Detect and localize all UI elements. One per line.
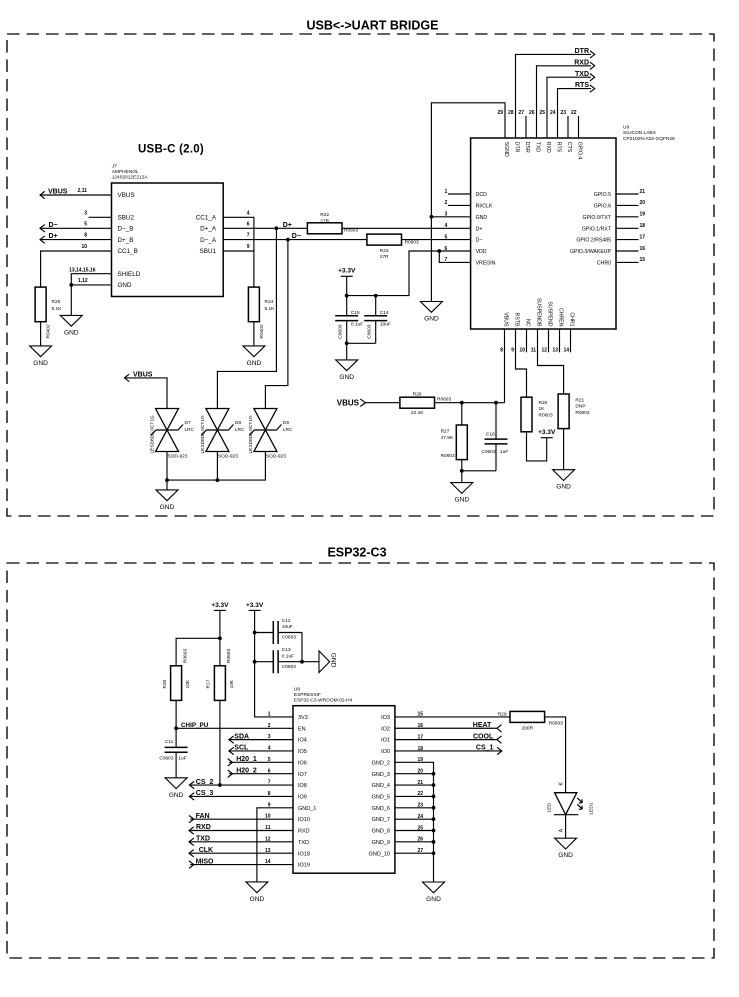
junction rail C14	[374, 294, 378, 298]
svg-text:10K: 10K	[229, 679, 235, 688]
svg-text:25: 25	[539, 110, 545, 116]
wire U9 pin 8 VBUS sense	[504, 329, 506, 403]
wire U9 pin 12 stub	[548, 329, 550, 352]
wire C15/C14 ground rail	[347, 342, 376, 344]
svg-text:DSR: DSR	[524, 142, 530, 153]
wire D8 to D+ junction	[217, 228, 276, 408]
svg-text:10: 10	[519, 348, 525, 354]
svg-text:1K: 1K	[539, 406, 546, 412]
svg-text:GND: GND	[64, 329, 79, 336]
svg-text:NC: NC	[524, 319, 530, 327]
svg-text:10uF: 10uF	[282, 624, 293, 630]
junction D- / D9	[286, 238, 290, 242]
U9 bottom pin numbers	[500, 348, 569, 354]
svg-text:IO9: IO9	[298, 795, 307, 801]
svg-text:27R: 27R	[320, 218, 329, 224]
svg-text:GND: GND	[330, 653, 337, 668]
svg-text:SGND: SGND	[503, 142, 509, 157]
junction J7 shield/gnd	[69, 283, 73, 287]
junction D+ / D8	[275, 226, 279, 230]
svg-text:C11: C11	[165, 739, 174, 745]
svg-text:19: 19	[640, 212, 646, 218]
resistor R23 27R	[367, 234, 419, 260]
svg-text:CC1_A: CC1_A	[196, 215, 217, 222]
svg-text:SBU2: SBU2	[118, 215, 135, 222]
svg-text:13: 13	[552, 348, 558, 354]
svg-text:GPIO.3/WAKEUP: GPIO.3/WAKEUP	[570, 249, 612, 255]
ground (TVS)	[156, 490, 178, 511]
svg-text:GND: GND	[33, 360, 48, 367]
svg-text:LED1: LED1	[588, 802, 594, 814]
svg-text:CTS: CTS	[566, 142, 572, 153]
svg-text:C0603: C0603	[159, 755, 173, 761]
svg-text:VBUS: VBUS	[118, 192, 135, 199]
svg-text:DCD: DCD	[476, 192, 487, 198]
svg-text:VREGIN: VREGIN	[476, 261, 496, 267]
svg-text:+3.3V: +3.3V	[538, 429, 556, 436]
junction SGND / pin3	[430, 215, 434, 219]
svg-text:8: 8	[500, 348, 503, 354]
wire R25 to ground	[40, 322, 42, 346]
svg-text:10uF: 10uF	[380, 321, 391, 327]
svg-text:R23: R23	[380, 248, 389, 254]
wire to ground (caps)	[346, 343, 348, 360]
TVS diode D9	[248, 409, 293, 460]
node SCL	[229, 745, 249, 755]
svg-text:1: 1	[445, 189, 448, 195]
node CS_1	[476, 745, 502, 755]
svg-text:C0603: C0603	[481, 449, 495, 455]
svg-text:27: 27	[518, 110, 524, 116]
svg-text:GND: GND	[169, 792, 184, 799]
svg-text:5.1K: 5.1K	[52, 306, 63, 312]
svg-text:21: 21	[640, 189, 646, 195]
svg-text:IO7: IO7	[298, 772, 307, 778]
svg-text:EN: EN	[298, 726, 306, 732]
svg-text:U8: U8	[294, 687, 300, 693]
resistor R24 5.1K	[248, 287, 275, 338]
wire R30 to CHIP_PU	[175, 700, 177, 728]
wire U9 pin 14 stub	[570, 329, 572, 352]
svg-text:R0603: R0603	[575, 410, 589, 416]
wire R22 to U9 pin 4	[342, 227, 471, 229]
U8 left pin numbers	[265, 712, 271, 866]
svg-text:47.5K: 47.5K	[441, 435, 454, 441]
svg-text:+3.3V: +3.3V	[338, 268, 356, 275]
svg-text:SOD-923: SOD-923	[218, 454, 238, 460]
resistor R17 10K	[206, 649, 235, 701]
svg-text:GPIO.2/RS485: GPIO.2/RS485	[576, 238, 611, 244]
svg-text:GPIO.1/RXT: GPIO.1/RXT	[582, 226, 612, 232]
svg-text:R24: R24	[265, 299, 274, 305]
svg-text:LESD8D5.0CT1G: LESD8D5.0CT1G	[150, 415, 156, 453]
svg-text:GND_7: GND_7	[372, 817, 390, 823]
wire J7 SHIELD pins 13,14,15,16	[69, 267, 111, 285]
junction cap rail	[300, 660, 304, 664]
svg-text:GND_1: GND_1	[298, 806, 316, 812]
wire R24 to ground	[253, 322, 255, 346]
wire H20_2 to U8 pin 6	[229, 773, 293, 775]
node RXD	[574, 59, 594, 69]
power +3.3V (EN pullups)	[211, 602, 229, 611]
svg-text:R20: R20	[539, 400, 548, 406]
U9 top pin numbers	[497, 110, 576, 116]
wire CS_3 to U8 pin 8	[189, 795, 293, 797]
svg-text:GND_10: GND_10	[369, 851, 390, 857]
junction rail C15	[345, 294, 349, 298]
wire +3.3V rail to U9 VDD pin 6	[346, 276, 348, 295]
svg-text:13,14,15,16: 13,14,15,16	[69, 267, 96, 273]
svg-text:14: 14	[563, 348, 569, 354]
svg-text:LESD8D5.0CT1G: LESD8D5.0CT1G	[200, 415, 206, 453]
node MISO	[189, 858, 214, 868]
resistor R25 5.1K	[35, 287, 62, 338]
svg-text:IO18: IO18	[298, 851, 310, 857]
svg-text:IO4: IO4	[298, 738, 307, 744]
wire J7 pin 9 SBU1 stub	[223, 244, 254, 251]
svg-text:+3.3V: +3.3V	[211, 602, 229, 609]
junction TVS rail D8	[216, 478, 220, 482]
wire +3.3V to R30/R17	[219, 610, 221, 665]
svg-text:C0603: C0603	[282, 664, 296, 670]
svg-text:GPIO.6: GPIO.6	[594, 204, 611, 210]
svg-text:DTR: DTR	[575, 48, 589, 55]
wire CS_2 to U8 pin 7	[189, 784, 293, 786]
svg-text:VBUS: VBUS	[48, 188, 68, 195]
U9 right pin numbers	[640, 189, 646, 263]
svg-text:CHR1: CHR1	[568, 312, 574, 326]
resistor R22 27R	[307, 212, 358, 234]
junction C12	[253, 631, 257, 635]
svg-text:D−_A: D−_A	[200, 237, 217, 244]
resistor R21 DNP	[558, 394, 590, 429]
svg-text:IO5: IO5	[298, 749, 307, 755]
node D- (J7 left)	[40, 222, 58, 232]
svg-text:0.1uF: 0.1uF	[282, 653, 294, 659]
svg-text:R0402: R0402	[259, 324, 265, 338]
wire R23 to U9 pin 5	[402, 239, 471, 241]
TVS diode D7 LESD8D5.0CT1G	[150, 409, 195, 460]
svg-text:GND: GND	[558, 852, 573, 859]
wire FAN to U8 pin 10	[190, 818, 293, 820]
node D+ (J7 left)	[40, 233, 58, 243]
wire H20_1 to U8 pin 5	[229, 761, 293, 763]
svg-text:D7: D7	[185, 420, 191, 426]
wire R21 to ground	[563, 429, 565, 470]
svg-text:VBUS: VBUS	[502, 312, 508, 327]
svg-text:RXD: RXD	[298, 829, 310, 835]
svg-text:DTR: DTR	[513, 142, 519, 153]
ground (U8 GND_1)	[246, 882, 268, 903]
svg-text:CP2102N-A02-GQFN28: CP2102N-A02-GQFN28	[623, 136, 675, 142]
svg-text:10K: 10K	[185, 679, 191, 688]
svg-text:GPIO.5: GPIO.5	[594, 192, 611, 198]
junction cap gnd rail	[345, 341, 349, 345]
svg-text:D−_B: D−_B	[118, 226, 134, 233]
svg-text:RTS: RTS	[575, 82, 589, 89]
wire R29 to LED1	[545, 717, 566, 793]
svg-text:28: 28	[508, 110, 514, 116]
junction TVS rail D7	[165, 478, 169, 482]
svg-text:4: 4	[445, 223, 448, 229]
capacitor C11 1uF	[159, 728, 187, 778]
U9 left pin numbers	[445, 189, 448, 263]
svg-text:+3.3V: +3.3V	[246, 602, 264, 609]
svg-text:1,12: 1,12	[78, 278, 88, 284]
svg-text:GND: GND	[424, 316, 439, 323]
svg-text:18: 18	[640, 223, 646, 229]
svg-text:GND: GND	[426, 896, 441, 903]
svg-text:D+: D+	[283, 222, 292, 229]
svg-text:5.1K: 5.1K	[265, 306, 276, 312]
svg-text:R0603: R0603	[549, 721, 563, 727]
wire VBUS to R26	[365, 402, 400, 404]
wire R17 to CS_2	[219, 700, 221, 785]
svg-text:D+_B: D+_B	[118, 237, 134, 244]
wire U9 pin 7 VREGIN	[439, 251, 470, 262]
wire U9 pin 1 DCD stub	[448, 193, 471, 195]
svg-text:D−: D−	[476, 238, 483, 244]
node CLK	[189, 847, 213, 857]
svg-text:LESD8D5.0CT1G: LESD8D5.0CT1G	[248, 415, 254, 453]
svg-text:GPIO.0/TXT: GPIO.0/TXT	[582, 215, 611, 221]
svg-text:R22: R22	[320, 212, 329, 218]
svg-text:27R: 27R	[380, 254, 389, 260]
junction R17/CS_2	[218, 783, 222, 787]
svg-text:R0603: R0603	[437, 397, 451, 403]
svg-text:SHIELD: SHIELD	[118, 271, 141, 278]
svg-text:C16: C16	[486, 432, 495, 438]
svg-text:TXD: TXD	[298, 840, 309, 846]
wire J7 pin 4 CC1_A to R24	[223, 210, 254, 287]
resistor R20 1K	[521, 397, 553, 432]
svg-text:AMPHENOL: AMPHENOL	[112, 169, 139, 175]
wire R26 to U9 pin 8	[435, 402, 505, 404]
wire RTS from U9 pin 24	[558, 89, 592, 138]
svg-text:3: 3	[84, 210, 87, 216]
svg-text:VDD: VDD	[476, 249, 487, 255]
svg-text:3V3: 3V3	[298, 715, 308, 721]
svg-text:22.1K: 22.1K	[411, 410, 424, 416]
svg-text:10: 10	[81, 244, 87, 250]
wire R27/C16 to ground	[461, 460, 463, 483]
svg-text:ESPRESSIF: ESPRESSIF	[294, 692, 321, 698]
svg-text:IO19: IO19	[298, 863, 310, 869]
resistor R29 200R	[498, 711, 564, 731]
svg-text:1uF: 1uF	[500, 449, 508, 455]
svg-text:GND: GND	[476, 215, 488, 221]
svg-text:1: 1	[268, 712, 271, 718]
TVS diode D8	[200, 409, 245, 460]
svg-text:IO6: IO6	[298, 760, 307, 766]
wire U8 GND_1 pin 9 to ground	[257, 808, 293, 882]
svg-text:GND: GND	[118, 282, 132, 289]
svg-text:4: 4	[247, 210, 250, 216]
svg-text:LRC: LRC	[283, 427, 293, 433]
wire HEAT from U8 pin 16	[395, 727, 497, 729]
capacitor C13 0.1uF	[255, 647, 302, 673]
capacitor C14 10uF	[364, 296, 391, 344]
svg-text:GPIO.4: GPIO.4	[576, 142, 582, 159]
svg-text:C0603: C0603	[282, 635, 296, 641]
svg-text:R0603: R0603	[226, 649, 232, 663]
svg-text:0.1uF: 0.1uF	[351, 321, 363, 327]
svg-text:GND: GND	[454, 497, 469, 504]
wire CLK to U8 pin 13	[189, 852, 293, 854]
junction CHIP_PU	[174, 726, 178, 730]
svg-text:GND_3: GND_3	[372, 772, 390, 778]
svg-text:R0603: R0603	[441, 453, 455, 459]
svg-text:C13: C13	[282, 647, 291, 653]
wire SGND pin 29 to ground	[431, 103, 505, 302]
ground (R21)	[553, 470, 575, 491]
ground (C12/C13)	[319, 651, 337, 673]
svg-text:R26: R26	[413, 391, 422, 397]
node VBUS (TVS)	[124, 371, 152, 381]
svg-text:C14: C14	[380, 310, 389, 316]
resistor R27 47.5K	[441, 403, 468, 460]
svg-text:J7: J7	[111, 164, 117, 170]
node FAN	[189, 813, 210, 823]
wire TXD from U9 pin 25	[547, 77, 591, 138]
wire cap gnd rail	[302, 633, 319, 662]
svg-text:5: 5	[445, 234, 448, 240]
svg-text:ESP32-C3: ESP32-C3	[327, 546, 386, 560]
svg-text:GND_9: GND_9	[372, 840, 390, 846]
node VBUS (J7 left)	[40, 188, 68, 198]
junctions ground rail	[432, 772, 436, 855]
node CS_2	[189, 779, 213, 789]
ground (U8 GND rail)	[423, 882, 445, 903]
ground (J7)	[60, 315, 82, 336]
ground (U9 SGND)	[420, 302, 442, 323]
svg-text:K: K	[559, 782, 565, 786]
svg-text:CC1_B: CC1_B	[118, 248, 138, 255]
svg-text:29: 29	[497, 110, 503, 116]
wire COOL from U8 pin 17	[395, 739, 497, 741]
svg-text:R21: R21	[575, 397, 584, 403]
svg-text:CHREN: CHREN	[557, 308, 563, 327]
U9 pin 23 stub	[567, 116, 569, 138]
ground (LED1)	[555, 838, 577, 859]
svg-text:D+: D+	[476, 226, 483, 232]
svg-text:R27: R27	[441, 428, 450, 434]
svg-text:15: 15	[640, 257, 646, 263]
svg-text:D8: D8	[235, 420, 241, 426]
ground (R24)	[243, 346, 265, 367]
svg-text:LRC: LRC	[185, 427, 195, 433]
svg-text:C0603: C0603	[367, 324, 373, 338]
svg-text:D+_A: D+_A	[200, 226, 217, 233]
wire U9 pin 11 SUSPENDB to R21	[538, 329, 564, 394]
svg-text:VBUS: VBUS	[337, 398, 360, 407]
svg-text:USB-C (2.0): USB-C (2.0)	[138, 144, 204, 156]
svg-text:R0603: R0603	[405, 240, 419, 246]
svg-text:20: 20	[640, 200, 646, 206]
ground (R27/C16)	[451, 483, 473, 504]
svg-text:11: 11	[531, 348, 537, 354]
power +3.3V (U8)	[246, 602, 264, 611]
svg-text:RTS: RTS	[555, 142, 561, 153]
wire U9 pin 2 RI stub	[448, 204, 471, 206]
wire CHIP_PU to U8 EN pin 2	[176, 727, 293, 729]
wire U9 pin 10 NC stub	[526, 329, 528, 352]
svg-text:CHR0: CHR0	[597, 261, 611, 267]
svg-text:IO3: IO3	[381, 715, 390, 721]
node TXD (ESP)	[189, 836, 210, 846]
svg-text:R17: R17	[206, 679, 212, 688]
node HEAT	[473, 722, 502, 732]
svg-text:SOD-923: SOD-923	[168, 454, 188, 460]
svg-text:7: 7	[247, 233, 250, 239]
wire J7 GND pins 1,12	[71, 278, 111, 315]
svg-text:24: 24	[550, 110, 556, 116]
svg-text:R0402: R0402	[46, 324, 52, 338]
svg-text:9: 9	[247, 244, 250, 250]
U9 right pin stubs 15-21	[616, 194, 639, 262]
wire D- net J7 pin 7 to R23	[223, 233, 367, 240]
svg-text:17: 17	[640, 234, 646, 240]
svg-text:D9: D9	[283, 420, 289, 426]
capacitor C12 10uF	[255, 618, 302, 644]
svg-text:SOD-923: SOD-923	[266, 454, 286, 460]
svg-text:RI/CLK: RI/CLK	[476, 204, 493, 210]
svg-text:R0603: R0603	[539, 413, 553, 419]
IC U9 SILICON LABS CP2102N-A02-GQFN28	[471, 125, 675, 330]
svg-text:GND_6: GND_6	[372, 806, 390, 812]
wire RXD from U9 pin 26	[537, 66, 592, 138]
node CS_3	[189, 790, 213, 800]
svg-text:1uF: 1uF	[178, 755, 186, 761]
node DTR	[575, 48, 595, 58]
svg-text:USB<->UART BRIDGE: USB<->UART BRIDGE	[307, 19, 439, 33]
svg-text:RSTB: RSTB	[513, 313, 519, 327]
svg-text:2: 2	[268, 723, 271, 729]
svg-text:A: A	[559, 828, 565, 832]
svg-text:TXD: TXD	[534, 142, 540, 153]
svg-text:TXD: TXD	[575, 71, 589, 78]
svg-text:9: 9	[511, 348, 514, 354]
wire SCL to U8 pin 4	[229, 750, 293, 752]
svg-text:6: 6	[247, 221, 250, 227]
U9 pin 22 stub	[578, 116, 580, 138]
svg-text:C15: C15	[351, 310, 360, 316]
connector J7 USB-C AMPHENOL 12402012E212A	[111, 164, 224, 297]
svg-text:26: 26	[529, 110, 535, 116]
wire U8 ground rail pins 19-27	[395, 762, 434, 882]
wire U9 pin 13 stub	[559, 329, 561, 352]
svg-text:GND: GND	[339, 374, 354, 381]
wire D9 to D- junction	[265, 240, 288, 409]
wire J7 pin 3 SBU2 stub	[84, 210, 111, 217]
svg-text:LRC: LRC	[235, 427, 245, 433]
svg-text:GND_4: GND_4	[372, 783, 390, 789]
svg-text:R29: R29	[498, 711, 507, 717]
ground (C15/C14)	[336, 360, 358, 381]
resistor R30 10K	[162, 649, 191, 701]
svg-text:C12: C12	[282, 618, 291, 624]
svg-text:R25: R25	[52, 299, 61, 305]
node H20_1	[228, 756, 257, 766]
svg-text:8: 8	[84, 233, 87, 239]
svg-text:IO2: IO2	[381, 726, 390, 732]
wire VBUS to J7 pins 2,11	[40, 188, 112, 195]
wire J7 pin 10 CC1_B to R25	[41, 244, 112, 287]
svg-text:RXD: RXD	[574, 59, 589, 66]
node VBUS (sense)	[337, 398, 366, 407]
U9 pin 27 stub	[525, 116, 527, 138]
wire U9 pin 3 GND to SGND rail	[431, 216, 470, 218]
